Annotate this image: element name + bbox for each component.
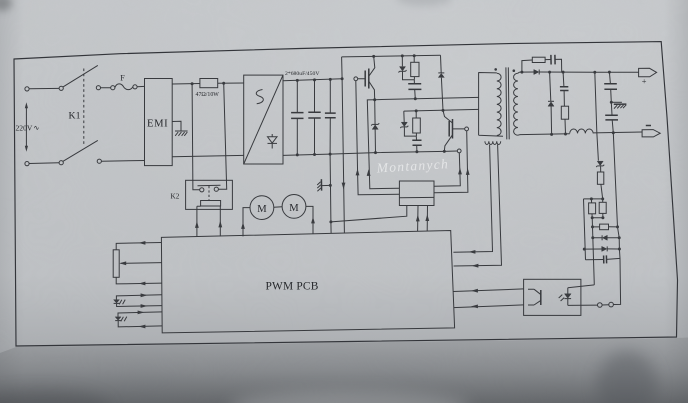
wire: opto LED cathode to torch switch [568,304,598,306]
snubber2 zener [404,111,417,136]
snubber1 resistor [411,62,419,76]
main transformer T1 secondary winding [514,73,518,135]
wire: bypass vertical left to K2 contact [192,84,200,190]
wire: output + line (secondary top) [520,71,639,73]
junction dot snubber1 tap [414,97,417,100]
svg-text:F: F [120,74,125,83]
schematic border frame [14,42,678,346]
PWM PCB board [161,231,454,333]
svg-text:∿: ∿ [34,124,40,132]
feedback network top wire [584,198,603,200]
network resistor Rb [599,202,606,213]
relay K2 coil [201,201,221,207]
fan motor M2 [282,195,306,219]
wire: Q1 gate drive (from transformer box) [356,81,400,195]
svg-text:M: M [257,204,267,215]
output terminal - [642,130,660,137]
wire: PWM PCB to opto transistor collector [454,289,524,292]
junction dot Q1 emitter node [373,98,376,101]
LED2 emission marks [121,317,127,322]
feedback network left rail [584,199,586,260]
wire: network middle rail down to opto LED anode [592,218,594,285]
network diode Db rung [584,248,619,250]
potentiometer (current set) [113,250,119,277]
wire: node A - Q1 emitter to transformer primary top [375,97,479,99]
output RC damper: capacitor [563,72,564,106]
network diode Da rung [593,237,619,239]
svg-text:+: + [642,77,647,86]
svg-text:2*680uF/450V: 2*680uF/450V [285,71,320,77]
zener D7 [597,165,603,167]
junction dots node B [415,109,418,112]
EMI filter box [145,79,173,166]
bridge rectifier [244,75,283,164]
wire: Q2 gate drive [434,131,468,193]
wire: bypass vertical right to K2 contact [218,83,226,189]
network resistor Ra [589,203,596,214]
switch K1 mechanical link (dashed) [83,69,85,146]
network capacitor rung [586,258,621,259]
wire: Q2 emitter drive return [434,153,460,186]
wire: pot wiper to PWM PCB [121,262,162,265]
capacitor C3 [329,79,331,154]
fan motor M1 [250,196,274,220]
bridge internal diode [271,134,273,149]
network resistor Rc rung [593,226,618,228]
polarity dot primary [494,68,497,71]
wire: mains input top row [29,86,144,88]
RC snubber across D5: resistor [522,60,551,73]
opto LED emission marks [559,295,565,301]
fuse F [111,84,137,90]
junction dot common node [329,220,332,223]
wire: LED2 anode to PWM PCB [118,312,162,317]
wire: opto LED anode up to network [568,285,595,288]
wire: CT lead 2 to PWM PCB [454,144,502,266]
RC snubber across D5: capacitor [551,55,555,65]
ground symbol mid (chassis) [317,179,330,191]
polarity dot secondary [513,69,516,72]
wire: DC- riser to common / PWM PCB [330,154,331,233]
relay K2 contact [198,185,221,192]
IGBT Q1 [354,56,375,99]
snubber2 capacitor [415,136,418,152]
resistor R inrush 47ohm/10W [200,79,218,88]
wire: secondary bottom lead [518,134,520,137]
wire: EMI to rectifier bottom (AC line) [172,155,244,156]
wire: K2 coil leads to PWM PCB [197,206,221,237]
clamp zener D3 on Q1 emitter leg [374,100,377,153]
relay K2 box [186,180,233,209]
svg-text:M: M [289,203,299,214]
snubber1 capacitor [414,80,415,99]
wire: M1 to PWM PCB [243,208,250,237]
wire: gate transformer primary leads to PWM PCB [418,206,428,232]
capacitor C1 680uF [296,80,298,154]
wire: M2 to PWM PCB [306,206,313,234]
opto phototransistor [540,290,542,305]
opto LED [565,298,572,300]
wire: EMI to rectifier top (AC line) [172,83,244,84]
freewheel diode D6 [550,72,552,134]
junction dots output + line [520,71,523,74]
output RC damper: resistor [561,106,568,119]
junction dots on AC line [191,82,194,85]
resistor R (chain) [597,172,603,184]
torch trigger terminals [598,302,614,307]
wire: DC- bus from rectifier [283,151,457,155]
IGBT Q2 [443,110,469,152]
wire: LED1 anode to PWM PCB [116,295,161,300]
wire: Q1 emitter drive return [367,100,399,189]
wire: LED1 cathode to PWM PCB [117,304,162,307]
wire: output - line (secondary bottom) [520,132,642,135]
output terminal + [639,68,657,77]
snubber1 zener [402,56,414,80]
arrows on K2 coil leads [195,221,199,228]
wire: CT lead 1 to PWM PCB [453,145,492,253]
gate drive transformer box [399,181,434,206]
capacitor C2 680uF [314,80,316,155]
svg-text:EMI: EMI [147,119,168,130]
arrow down on bus feed to PWM PCB [342,183,346,190]
wire: LED2 cathode to PWM PCB [118,321,162,327]
wire: secondary top lead [518,72,520,73]
svg-text:K2: K2 [171,193,180,201]
junction dots DC- bus [296,153,299,156]
junction dot ground tap output [610,101,613,104]
wire: gate transformer left lead to common [331,206,407,222]
zener chain: wire from + line down [595,72,603,199]
optocoupler U1 box [524,279,581,315]
wire: DC+ bus from rectifier [283,79,342,81]
clamp diode D4 (top rail to Q2 collector node) [441,55,444,110]
svg-text:PWM PCB: PWM PCB [266,280,319,292]
label 220V~ with voltage arrow [16,102,40,151]
switch K1 blade bottom pole [63,140,98,161]
LED1 emission marks [119,300,125,305]
junction dot ground tap [329,184,332,187]
wire: top DC rail [342,55,441,57]
output rectifier diode D5 [538,70,540,75]
svg-text:47Ω/10W: 47Ω/10W [196,92,220,98]
snubber2 resistor [413,118,421,133]
wire: node B - Q2 collector row to transformer primary bottom [404,109,479,111]
junction dots top rail [372,55,375,58]
ground symbol output [611,102,626,108]
filter capacitor C5 [605,115,618,120]
ground symbol at EMI [172,121,187,136]
wire: pot top to PWM PCB [116,243,161,250]
wire: motor link [274,206,282,208]
svg-text:K1: K1 [69,111,81,122]
svg-text:220V: 220V [16,124,33,133]
indicator LED1 [114,302,120,304]
indicator LED2 [115,320,121,322]
transformer core [506,67,509,139]
wire: resistor bottoms rung [592,217,603,219]
wire: filter caps riser (+ to - and down) [609,72,620,304]
junction dots DC+ bus [296,79,299,82]
relay K2 link dashed [208,186,210,200]
switch K1 blade top pole [63,65,98,87]
main transformer T1 primary winding [497,73,501,135]
label - [646,125,651,127]
wire: PWM PCB to opto transistor emitter [454,305,524,308]
main transformer T1 primary connection H [479,72,503,136]
wire: pot bottom to PWM PCB [116,277,162,284]
output choke L1 [570,129,593,133]
terminal circles: mains input [25,86,102,166]
junction dots output - line [550,133,553,136]
wire: mains input bottom row [29,161,144,164]
wire: bus riser to top rail and down to PWM PCB [342,57,345,233]
junction dots network top [590,197,593,200]
filter capacitor C4 [604,84,617,90]
current transformer winding [485,141,501,144]
